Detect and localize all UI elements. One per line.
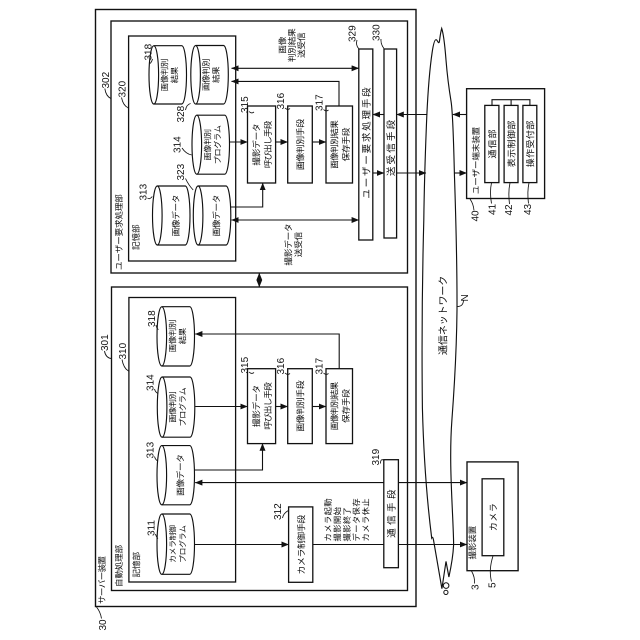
box 315 撮影データ呼び出し手段 (user) (248, 106, 276, 183)
title 撮影装置 (468, 551, 476, 559)
box 302 ユーザー要求処理部 (111, 21, 408, 273)
leader 315b (249, 372, 254, 373)
bar 42 表示制御部 (504, 105, 518, 182)
svg-text:314: 314 (173, 136, 184, 153)
text 311 (169, 556, 175, 562)
svg-text:41: 41 (488, 203, 499, 215)
title 記憶部(320) (132, 242, 139, 250)
wire 316b-317b (312, 406, 326, 408)
svg-text:314: 314 (146, 374, 157, 391)
text 330 (386, 167, 395, 176)
text 312 (298, 567, 305, 574)
wire 312-319 (313, 544, 384, 546)
leader 328 (186, 104, 191, 111)
leader 42 (509, 183, 510, 204)
wire 313b to 315b L-route (195, 444, 263, 470)
svg-text:317: 317 (315, 94, 326, 111)
svg-text:3: 3 (471, 584, 482, 590)
wire 317b to 318b (195, 334, 339, 369)
text 通信ネットワーク (438, 345, 447, 354)
svg-text:310: 310 (118, 342, 129, 359)
cylinder 314 画像判別プログラム (user) (197, 115, 230, 174)
text 313b (177, 488, 184, 496)
bar 43 操作受付部 (523, 105, 537, 182)
bar 41 通信部 (485, 105, 499, 182)
cylinder 313 画像データ (user) (157, 186, 190, 245)
leader 312 (283, 511, 289, 519)
wire 314u-315u (230, 141, 248, 143)
svg-text:316: 316 (276, 92, 287, 109)
leader 314u (182, 148, 192, 155)
wire 328-329 double arrow (画像判別結果) (232, 67, 359, 69)
text カメラ (489, 524, 496, 531)
svg-text:302: 302 (101, 71, 112, 88)
leader 318b (156, 325, 159, 330)
wire cloud-330 arrow up (397, 114, 428, 116)
leader 41 (491, 183, 492, 204)
leader 3 (472, 571, 475, 584)
text 329 (363, 190, 369, 198)
wire 301-302 double arrow (258, 273, 260, 287)
text 315u (252, 157, 260, 165)
box 312 カメラ制御手段 (289, 507, 313, 582)
wire 315u-316u (276, 141, 288, 143)
cylinder 313 画像データ (auto) (162, 446, 195, 505)
leader 43 (528, 183, 529, 204)
leader 301 (105, 351, 112, 359)
wire 314b-315b (195, 406, 247, 408)
cylinder 314 画像判別プログラム (auto) (162, 377, 195, 437)
wire 319-camera (398, 544, 467, 546)
text 318b (169, 344, 176, 351)
leader 318u (150, 59, 153, 64)
svg-text:328: 328 (176, 105, 187, 122)
leader 317b (324, 373, 329, 374)
leader 313b (155, 457, 158, 462)
cylinder 318 画像判別結果 (user) (154, 46, 187, 104)
svg-text:43: 43 (523, 203, 534, 215)
leader 313u (148, 197, 153, 199)
leader 310 (122, 360, 129, 372)
text 319 (387, 529, 395, 538)
text 317u (331, 161, 338, 169)
annotation camera steps カメラ起動〜カメラ休止 (324, 534, 331, 540)
text 313u (172, 228, 179, 236)
title 自動処理部 (115, 580, 123, 586)
leader 5 (490, 556, 493, 582)
svg-text:317: 317 (315, 357, 326, 374)
wire user-cloud arrow up (453, 114, 467, 116)
wire 317u to 328 (232, 81, 340, 106)
svg-text:315: 315 (240, 96, 251, 113)
text 41 (488, 150, 496, 158)
wire 330-329 arrow up (373, 114, 384, 116)
box 320 記憶部 (user) (129, 36, 236, 261)
svg-text:311: 311 (147, 520, 158, 536)
leader 320 (122, 98, 129, 109)
text 315b (252, 419, 260, 427)
svg-text:320: 320 (118, 80, 129, 97)
svg-text:315: 315 (240, 356, 251, 373)
svg-text:318: 318 (144, 43, 155, 60)
box 5 カメラ (482, 479, 504, 556)
box 3 撮影装置 (467, 462, 518, 571)
wire 316u-317u (312, 141, 326, 143)
svg-text:42: 42 (504, 204, 515, 216)
box 317 画像判別結果保存手段 (auto) (326, 369, 353, 444)
text 323 (213, 228, 220, 236)
cloud 通信ネットワーク N (422, 28, 457, 588)
wire 315b-316b (276, 406, 288, 408)
box 315 撮影データ呼び出し手段 (auto) (248, 369, 276, 444)
wire cloud-user arrow down (454, 172, 466, 174)
svg-text:316: 316 (276, 357, 287, 374)
box 40 ユーザー端末装置 (467, 89, 545, 199)
bracket bus 41-42-43 (492, 100, 530, 106)
svg-text:313: 313 (146, 441, 157, 458)
leader 30 (97, 607, 102, 619)
text 316u (297, 162, 305, 170)
cloud tail circle 1 (443, 583, 449, 589)
box 310 記憶部 (129, 298, 236, 583)
svg-text:N: N (460, 294, 471, 301)
text 42 (507, 159, 515, 167)
wire 319-313b arrow up (195, 482, 384, 484)
box 316 画像判別手段 (auto) (288, 369, 313, 444)
annotation 画像判別結果送受信 (279, 46, 286, 54)
text 328 (203, 83, 210, 90)
bar 330 送受信手段 (384, 49, 397, 238)
bar 329 ユーザー要求処理手段 (359, 49, 373, 240)
text 317b (331, 422, 338, 430)
leader 316u (285, 108, 290, 109)
leader 330 (381, 39, 384, 49)
leader 314b (155, 389, 159, 394)
leader 319 (381, 460, 384, 464)
svg-text:330: 330 (372, 24, 383, 41)
box 317 画像判別結果保存手段 (user) (326, 106, 353, 183)
text 318u (161, 83, 168, 90)
title 記憶部(310) (133, 569, 140, 577)
text 316b (297, 423, 305, 431)
leader 329 (357, 40, 359, 49)
leader 315u (249, 112, 254, 113)
svg-text:318: 318 (147, 310, 158, 327)
leader 317u (324, 110, 329, 111)
svg-text:301: 301 (100, 334, 111, 351)
leader 40 (470, 199, 474, 211)
wire 311-312 (195, 544, 289, 546)
wire 323 to 315u L-route (231, 183, 263, 207)
title ユーザー要求処理部 (116, 262, 121, 269)
wire 329-330 arrow down (373, 172, 384, 174)
leader N (457, 301, 464, 307)
box 301 自動処理部 (112, 287, 408, 591)
svg-text:5: 5 (488, 582, 499, 588)
box 316 画像判別手段 (user) (288, 106, 313, 183)
title ユーザー端末装置 (473, 186, 478, 193)
leader 311 (156, 534, 159, 539)
cylinder 328 画像判別結果 (copy) (196, 46, 229, 105)
cloud tail circle 2 (444, 590, 448, 594)
wire 330-cloud arrow down (397, 172, 426, 174)
title サーバー装置 (98, 596, 105, 603)
wire 319-camera upper (398, 482, 467, 484)
bar 319 通信手段 (384, 460, 399, 568)
cylinder 323 画像データ (copy) (198, 186, 231, 245)
annotation 撮影データ送受信 (284, 257, 292, 265)
svg-text:323: 323 (176, 163, 187, 180)
svg-text:40: 40 (471, 210, 482, 222)
leader 316b (285, 373, 290, 374)
leader 323 (186, 179, 194, 191)
wire 323-329 double arrow (撮影データ) (232, 219, 359, 221)
svg-text:30: 30 (98, 619, 109, 631)
svg-text:329: 329 (348, 25, 359, 42)
server device box 30 (サーバー装置) (96, 10, 417, 607)
text 43 (526, 159, 534, 167)
text 314b (169, 415, 176, 422)
leader 302 (105, 89, 111, 99)
text 314u (204, 153, 211, 160)
cylinder 311 カメラ制御プログラム (162, 514, 195, 574)
cylinder 318 画像判別結果 (auto) (162, 307, 195, 366)
